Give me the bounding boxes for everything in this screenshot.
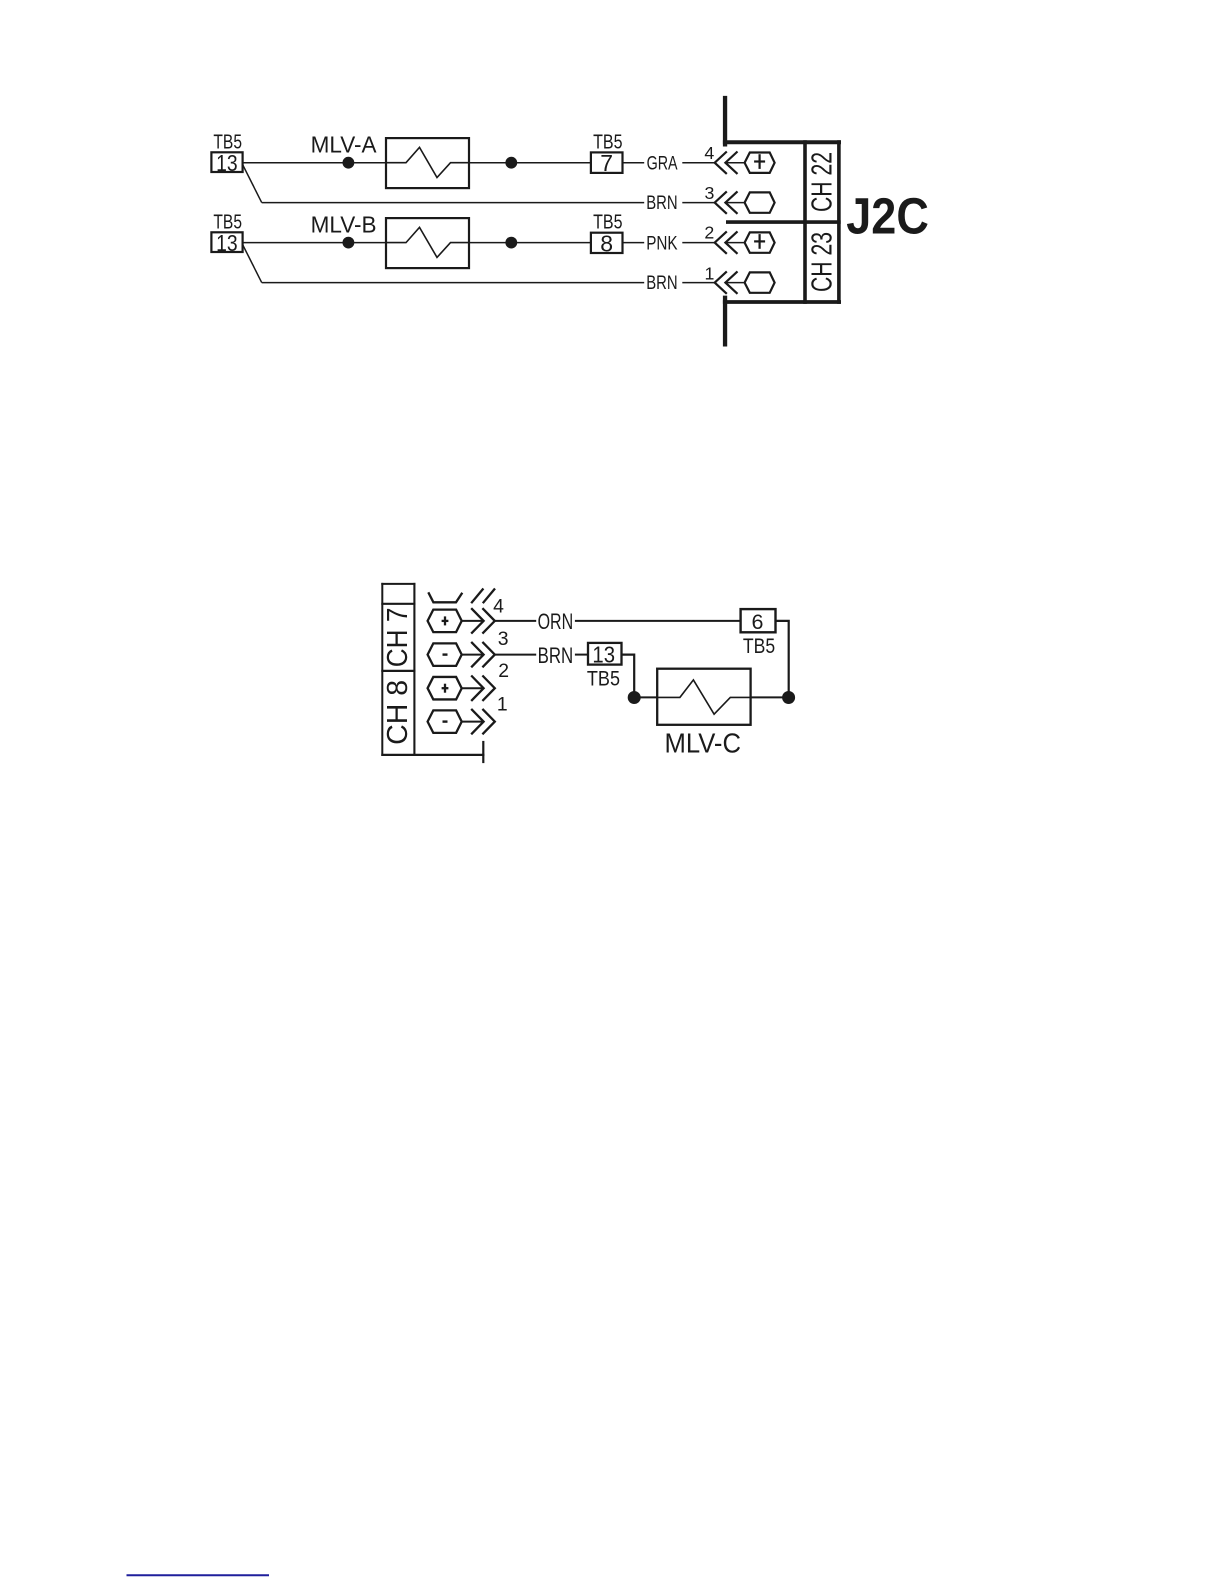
wire MLV-C to right node (751, 696, 789, 698)
J2C pin 4 contact (chevrons and socket with +) (715, 152, 775, 174)
wire BRN label to J2C pin 1 (682, 282, 714, 284)
wire ORN from pin 4 (495, 620, 536, 622)
svg-text:CH 22: CH 22 (806, 152, 838, 212)
connector J2C divider CH22/CH23 (726, 220, 841, 224)
wire PNK to J2C pin 2 (682, 242, 714, 244)
connector J2C cable stub top (723, 96, 727, 147)
connector J2C box top edge (723, 140, 841, 144)
wire ORN to TB5-6 (575, 620, 741, 622)
wire MLV-A to TB5-7 (469, 162, 591, 164)
cropped partial pin chevron arm 2 (483, 589, 495, 604)
connector CH7/CH8 cable stub bottom (482, 741, 484, 763)
J2C pin 2 contact (chevrons and socket with +) (715, 231, 775, 253)
J2C pin 3 contact (chevrons and socket) (715, 191, 775, 213)
connector J2C cable stub bottom (723, 296, 727, 347)
J2C pin 1 contact (chevrons and socket) (715, 271, 775, 293)
wire BRN to TB5-13 (575, 654, 588, 656)
CH7 pin 3 contact (socket - and chevrons) (428, 642, 495, 667)
connector CH7/CH8 label column right edge (413, 583, 415, 756)
connector CH7/CH8 column top edge (cropped cell) (381, 583, 415, 585)
wire TB5-13 corner diagonal (row 1 to BRN) (243, 165, 262, 203)
wire TB5-13 to MLV-C left node (622, 655, 635, 698)
hyperlink underline (page footer) (127, 1574, 270, 1576)
svg-text:J2C: J2C (846, 188, 929, 245)
node dot MLV-C right (782, 691, 795, 704)
svg-text:BRN: BRN (646, 273, 677, 294)
wire MLV-B to TB5-8 (469, 242, 591, 244)
wire TB5-7 to GRA label (623, 162, 645, 164)
terminal TB5 pin 13 box (lower) (588, 642, 622, 668)
svg-text:MLV-A: MLV-A (311, 131, 377, 157)
connector J2C box right edge (837, 140, 841, 304)
CH7 pin 4 contact (socket + and chevrons) (428, 608, 495, 633)
junction dot (right of MLV-A) (505, 157, 517, 169)
svg-text:BRN: BRN (538, 643, 574, 668)
svg-text:MLV-C: MLV-C (665, 727, 742, 758)
wire TB5-13 to MLV-A (243, 162, 386, 164)
valve MLV-C box (657, 669, 750, 725)
svg-text:13: 13 (216, 150, 238, 176)
connector CH7/CH8 label column left edge (381, 583, 383, 756)
valve MLV-B zigzag element (386, 227, 469, 257)
terminal TB5 pin 8 box (591, 230, 623, 256)
svg-text:BRN: BRN (646, 193, 677, 214)
svg-text:ORN: ORN (538, 609, 574, 634)
junction dot (left of MLV-A) (343, 157, 355, 169)
svg-text:1: 1 (705, 263, 715, 283)
wire TB5-6 to MLV-C right node (776, 621, 789, 698)
junction dot (left of MLV-B) (343, 237, 355, 249)
terminal TB5 pin 7 box (591, 150, 623, 176)
CH8 pin 2 contact (socket + and chevrons) (428, 676, 495, 701)
connector J2C box bottom edge (723, 300, 841, 304)
valve MLV-A box (386, 138, 469, 188)
svg-text:4: 4 (493, 596, 504, 618)
svg-text:4: 4 (704, 143, 714, 163)
wire TB5-8 to PNK label (623, 242, 645, 244)
svg-text:MLV-B: MLV-B (311, 211, 377, 237)
svg-text:8: 8 (600, 230, 613, 256)
svg-text:1: 1 (497, 693, 508, 715)
connector divider CH7/CH8 (381, 670, 415, 672)
wire BRN to J2C pin 1 (262, 282, 645, 284)
svg-text:3: 3 (498, 628, 509, 650)
svg-text:PNK: PNK (646, 233, 678, 254)
terminal TB5 pin 13 box (row 1) (211, 150, 242, 176)
svg-text:3: 3 (705, 183, 715, 203)
cropped partial pin chevron arm 1 (471, 589, 483, 604)
connector CH7/CH8 box bottom edge (381, 754, 484, 756)
svg-text:TB5: TB5 (587, 666, 620, 690)
valve MLV-B box (386, 218, 469, 268)
wire TB5-13 corner diagonal (row 2 to BRN) (243, 245, 262, 283)
svg-text:CH 7: CH 7 (382, 608, 414, 668)
wire left node to MLV-C (634, 696, 657, 698)
svg-text:CH 8: CH 8 (382, 680, 414, 745)
svg-text:CH 23: CH 23 (806, 232, 838, 292)
terminal TB5 pin 6 box (741, 609, 776, 634)
CH8 pin 1 contact (socket - and chevrons) (428, 709, 495, 734)
wire BRN to J2C pin 3 (262, 202, 645, 204)
valve MLV-A zigzag element (386, 147, 469, 177)
svg-text:13: 13 (592, 642, 615, 668)
cropped partial pin socket (top of connector) (428, 592, 462, 602)
connector J2C channel divider column (803, 140, 807, 304)
connector CH7 cell top edge (381, 603, 415, 605)
svg-text:7: 7 (600, 150, 613, 176)
svg-text:13: 13 (216, 230, 238, 256)
valve MLV-C zigzag element (657, 680, 750, 714)
svg-text:GRA: GRA (647, 154, 678, 175)
svg-text:2: 2 (704, 223, 714, 243)
wire BRN from pin 3 (495, 654, 536, 656)
terminal TB5 pin 13 box (row 2) (211, 230, 242, 256)
wire TB5-13 to MLV-B (243, 242, 386, 244)
wire BRN label to J2C pin 3 (682, 202, 714, 204)
svg-text:TB5: TB5 (743, 634, 775, 658)
node dot MLV-C left (628, 691, 641, 704)
svg-text:2: 2 (498, 660, 509, 682)
junction dot (right of MLV-B) (505, 237, 517, 249)
svg-text:6: 6 (752, 610, 764, 634)
wire GRA to J2C pin 4 (682, 162, 714, 164)
